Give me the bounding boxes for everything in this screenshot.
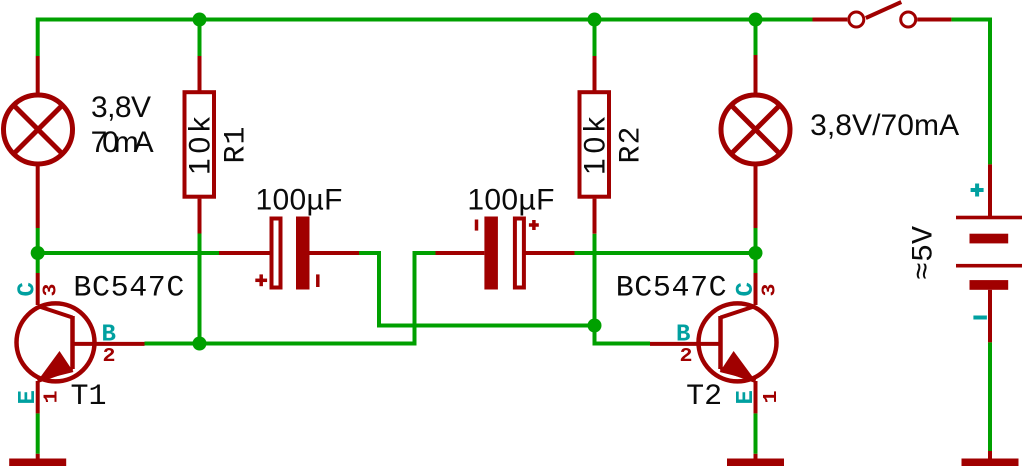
- wire lamp2 bottom to node: [754, 228, 758, 273]
- svg-text:T1: T1: [71, 380, 107, 414]
- node VCC dot R1: [193, 13, 207, 27]
- ground GND1 (T1 emitter): [9, 454, 66, 466]
- transistor T2: [650, 273, 777, 413]
- svg-text:10k: 10k: [578, 116, 611, 175]
- wire R2 top: [593, 20, 597, 57]
- wire battery to ground: [988, 342, 992, 451]
- svg-text:T2: T2: [686, 380, 722, 414]
- svg-text:R2: R2: [615, 127, 649, 164]
- svg-text:70mA: 70mA: [91, 126, 154, 159]
- capacitor C1: [219, 217, 359, 290]
- capacitor C2: [436, 217, 575, 290]
- transistor T1: [17, 273, 145, 413]
- resistor R1: [185, 56, 215, 234]
- svg-text:3: 3: [759, 284, 781, 297]
- svg-text:E: E: [733, 390, 760, 404]
- lamp LAMP2: [721, 55, 790, 228]
- node VCC dot R2: [588, 13, 602, 27]
- resistor R2: [580, 56, 610, 234]
- wire C2 right to lamp2 node: [575, 251, 756, 255]
- svg-text:C: C: [733, 282, 760, 296]
- wire R1 top: [198, 20, 202, 57]
- svg-text:E: E: [15, 390, 42, 404]
- svg-text:3,8V/70mA: 3,8V/70mA: [810, 109, 959, 142]
- battery BAT1: [956, 164, 1022, 342]
- wire T1 emitter to ground: [36, 413, 40, 453]
- ground GND2 (T2 emitter): [727, 454, 784, 466]
- label C2 plus: [529, 220, 539, 230]
- svg-text:2: 2: [680, 345, 693, 367]
- svg-text:3,8V: 3,8V: [91, 91, 151, 124]
- label battery plus: [971, 184, 984, 197]
- svg-text:1: 1: [760, 391, 782, 404]
- wire R2 bottom: [593, 234, 597, 326]
- svg-text:R1: R1: [220, 127, 254, 164]
- node dot T1 collector: [31, 246, 45, 260]
- wire T2 base jog: [595, 326, 651, 344]
- svg-text:2: 2: [103, 345, 116, 367]
- svg-text:C: C: [15, 282, 42, 296]
- wire T1 base to C2 left (lower cross wire): [145, 253, 436, 344]
- svg-text:≈5V: ≈5V: [908, 226, 942, 280]
- wire top rail: [38, 20, 813, 57]
- svg-text:1: 1: [41, 391, 63, 404]
- svg-text:BC547C: BC547C: [73, 272, 184, 306]
- node dot T1 base: [193, 337, 207, 351]
- node VCC dot lamp2: [749, 13, 763, 27]
- label battery minus: [973, 316, 987, 320]
- wire R1 bottom: [198, 234, 202, 344]
- wire C1 right to T2 base (upper cross wire): [359, 253, 595, 326]
- svg-text:BC547C: BC547C: [616, 272, 727, 306]
- svg-text:10k: 10k: [184, 116, 217, 175]
- wire lamp2 top: [754, 20, 758, 56]
- lamp LAMP1: [4, 56, 73, 228]
- wire T2 emitter to ground: [754, 413, 758, 453]
- label C2 minus: [475, 220, 479, 231]
- label C1 minus: [316, 274, 320, 287]
- switch S1: [813, 2, 952, 27]
- label C1 plus: [255, 274, 267, 286]
- wire lamp1 bottom to node: [36, 228, 40, 273]
- node dot T2 collector: [749, 246, 763, 260]
- ground GND3 (battery): [962, 451, 1019, 466]
- node dot T2 base: [588, 319, 602, 333]
- svg-text:100µF: 100µF: [467, 183, 554, 216]
- wire node line left (lamp1 to C1): [38, 251, 219, 255]
- svg-text:100µF: 100µF: [256, 183, 343, 216]
- svg-text:3: 3: [40, 284, 62, 297]
- wire switch to right corner: [951, 20, 990, 165]
